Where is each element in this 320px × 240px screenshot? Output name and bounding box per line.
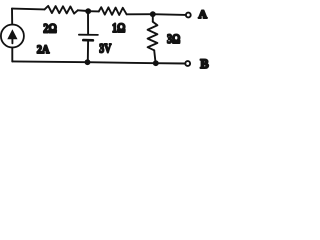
wire N2 down to R3	[152, 14, 154, 22]
svg-text:2Ω: 2Ω	[43, 20, 57, 35]
svg-text:A: A	[198, 7, 207, 21]
wire N1 down to battery	[87, 11, 89, 34]
svg-text:3Ω: 3Ω	[167, 31, 180, 46]
terminal A open circle	[186, 13, 191, 18]
label 3Ω	[167, 31, 180, 46]
wire R1 to node N1	[78, 9, 88, 12]
current source I1 arrow	[7, 29, 17, 43]
resistor R1 2Ω zigzag	[45, 6, 78, 14]
node N1 junction dot	[85, 8, 91, 14]
wire left vertical bottom	[11, 48, 13, 62]
wire top-left segment	[12, 8, 45, 11]
resistor R3 3Ω vertical zigzag	[148, 22, 158, 51]
svg-text:1Ω: 1Ω	[112, 20, 125, 35]
terminal B open circle	[185, 61, 190, 66]
wire R3 down to node N4	[154, 50, 155, 63]
label 3V	[99, 40, 111, 55]
current source I1 circle	[1, 25, 24, 48]
battery V1 short plate	[83, 39, 93, 42]
battery V1 long plate	[79, 34, 98, 36]
label A	[198, 7, 207, 21]
wire bottom left segment	[12, 60, 87, 63]
wire R2 to node N2	[127, 13, 153, 15]
wire N4 to terminal B	[156, 62, 185, 64]
label B	[200, 57, 208, 71]
label 2A	[37, 42, 50, 56]
node N2 junction dot	[150, 11, 156, 17]
svg-text:B: B	[200, 57, 208, 71]
wire N1 to R2	[88, 10, 99, 12]
wire N2 to terminal A	[153, 13, 186, 16]
resistor R2 1Ω zigzag	[99, 7, 127, 15]
node N3 junction dot	[85, 59, 91, 65]
wire battery down to node N3	[87, 40, 89, 62]
svg-text:3V: 3V	[99, 40, 111, 55]
node N4 junction dot	[153, 60, 159, 66]
wire bottom middle segment	[88, 62, 156, 63]
label 2Ω	[43, 20, 57, 35]
wire left vertical top	[11, 9, 13, 25]
svg-text:2A: 2A	[37, 42, 50, 56]
label 1Ω	[112, 20, 125, 35]
